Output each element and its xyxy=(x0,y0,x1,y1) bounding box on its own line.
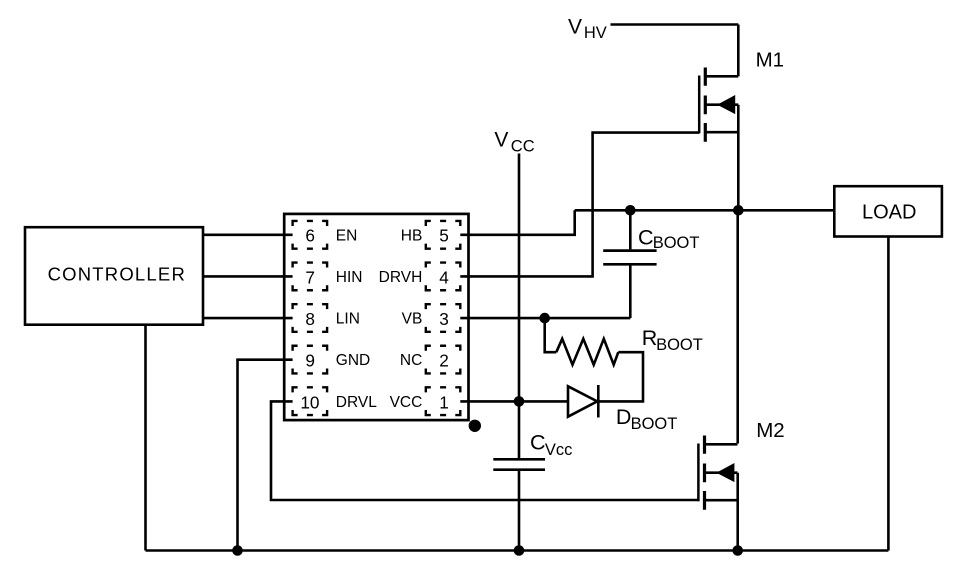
svg-text:10: 10 xyxy=(300,392,319,412)
load box xyxy=(834,186,942,236)
ground rail xyxy=(146,549,889,552)
diode DBOOT xyxy=(568,386,597,416)
pin 9 pad xyxy=(293,346,328,374)
junction M2 source at ground rail xyxy=(732,545,743,556)
svg-text:C: C xyxy=(638,225,654,249)
svg-text:HB: HB xyxy=(401,227,423,244)
svg-text:EN: EN xyxy=(336,227,358,244)
svg-text:5: 5 xyxy=(439,226,449,246)
svg-text:M2: M2 xyxy=(756,419,784,442)
wire controller to pin 7 xyxy=(203,275,293,278)
svg-text:Vcc: Vcc xyxy=(545,441,573,459)
capacitor CVcc xyxy=(493,459,545,469)
junction VB / RBOOT branch xyxy=(539,313,550,324)
svg-text:CONTROLLER: CONTROLLER xyxy=(48,264,186,285)
pin 2 pad xyxy=(426,346,461,374)
svg-text:GND: GND xyxy=(336,352,370,369)
wire switch node to M2 drain xyxy=(736,210,739,443)
svg-text:BOOT: BOOT xyxy=(653,234,700,252)
svg-text:DRVH: DRVH xyxy=(379,269,423,286)
pin 7 pad xyxy=(293,263,328,291)
wire RBOOT to DBOOT cathode xyxy=(598,352,643,401)
junction VCC line / pin 1 xyxy=(514,396,525,407)
svg-text:4: 4 xyxy=(439,267,449,287)
controller box xyxy=(25,227,203,325)
wire controller bottom to ground rail xyxy=(144,325,147,551)
wire CBOOT top lead xyxy=(629,210,632,249)
wire M1 drain vertical xyxy=(737,25,740,77)
wire VHV to M1 drain xyxy=(611,23,739,26)
wire pin 10 DRVL to M2 gate xyxy=(271,401,698,500)
wire VB branch down to RBOOT xyxy=(545,318,557,352)
wire pin 9 GND to ground rail xyxy=(238,360,293,551)
wire M2 source to ground rail xyxy=(736,473,739,551)
wire pin 1 VCC row to DBOOT anode xyxy=(460,400,568,403)
wire controller to pin 8 xyxy=(203,317,293,320)
svg-text:HIN: HIN xyxy=(336,269,363,286)
svg-text:9: 9 xyxy=(305,351,315,371)
wire LOAD bottom to ground rail xyxy=(887,237,890,551)
svg-text:DRVL: DRVL xyxy=(336,394,377,411)
svg-text:R: R xyxy=(642,326,658,350)
wire pin 5 HB up to bootstrap node xyxy=(460,210,574,235)
wire VCC vertical lower / CVcc bottom lead xyxy=(518,471,521,551)
junction CBOOT top node xyxy=(625,205,636,216)
pin 6 pad xyxy=(293,221,328,249)
svg-text:V: V xyxy=(494,129,508,152)
svg-text:D: D xyxy=(616,405,632,429)
capacitor CBOOT xyxy=(603,251,656,265)
transistor M2 xyxy=(698,436,737,510)
wire switch node horizontal to LOAD xyxy=(575,209,835,212)
pin 1 indicator dot xyxy=(469,420,481,432)
svg-text:8: 8 xyxy=(305,309,315,329)
svg-text:1: 1 xyxy=(439,392,449,412)
svg-text:LOAD: LOAD xyxy=(862,202,916,224)
svg-text:2: 2 xyxy=(439,351,449,371)
svg-text:6: 6 xyxy=(305,226,315,246)
IC U1 body xyxy=(284,214,468,420)
svg-text:M1: M1 xyxy=(756,49,784,72)
wire VCC vertical upper xyxy=(518,154,521,460)
pin 1 pad xyxy=(426,387,461,415)
pin 5 pad xyxy=(426,221,461,249)
wire controller to pin 6 xyxy=(203,234,293,237)
svg-text:VCC: VCC xyxy=(390,394,423,411)
wire M1 source to switch node xyxy=(737,105,740,211)
pin 3 pad xyxy=(426,304,461,332)
wire CBOOT bottom lead xyxy=(629,266,632,319)
junction VCC at ground rail xyxy=(514,545,525,556)
svg-text:CC: CC xyxy=(511,137,535,155)
svg-text:7: 7 xyxy=(305,267,315,287)
wire pin 3 VB row xyxy=(460,317,630,320)
svg-text:HV: HV xyxy=(584,24,607,42)
svg-text:V: V xyxy=(568,16,582,39)
svg-text:3: 3 xyxy=(439,309,449,329)
wire pin 4 DRVH to M1 gate xyxy=(460,133,699,277)
svg-text:LIN: LIN xyxy=(336,311,360,328)
junction GND rail xyxy=(232,545,243,556)
svg-text:BOOT: BOOT xyxy=(656,336,703,354)
transistor M1 xyxy=(699,68,738,142)
svg-text:VB: VB xyxy=(402,311,423,328)
resistor RBOOT xyxy=(556,339,618,365)
pin 8 pad xyxy=(293,304,328,332)
pin 10 pad xyxy=(293,387,328,415)
pin 4 pad xyxy=(426,263,461,291)
svg-text:BOOT: BOOT xyxy=(631,415,678,433)
svg-text:C: C xyxy=(530,430,546,454)
junction M1 source node xyxy=(733,205,744,216)
svg-text:NC: NC xyxy=(400,352,422,369)
